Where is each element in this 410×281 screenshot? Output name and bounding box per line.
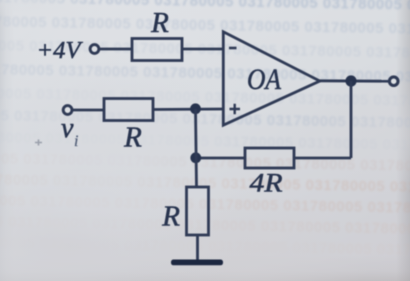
paper speck mark — [35, 140, 42, 146]
svg-text:R: R — [123, 122, 142, 154]
svg-text:+4V: +4V — [37, 37, 84, 64]
wire feedback horizontal right — [294, 157, 351, 160]
resistor R3 (vertical) — [187, 187, 209, 235]
node A junction — [190, 103, 201, 114]
ground — [171, 260, 223, 266]
op-amp U1 — [223, 32, 319, 125]
resistor R4 (4R) — [245, 148, 294, 168]
svg-text:v: v — [61, 113, 74, 144]
wire op-amp output — [319, 79, 390, 82]
wire terminal vi to R2 — [72, 109, 104, 112]
wire terminal to R1 — [99, 48, 132, 51]
resistor R2 — [104, 99, 153, 121]
wire R3 to ground — [196, 235, 199, 260]
terminal +4V input — [90, 45, 99, 54]
wire feedback vertical — [350, 81, 353, 158]
op-amp plus sign — [230, 104, 241, 114]
node B junction — [190, 152, 201, 163]
svg-text:4R: 4R — [250, 169, 283, 198]
svg-text:OA: OA — [247, 64, 282, 96]
wire R1 to op-amp inverting input — [182, 48, 224, 51]
op-amp minus sign — [229, 47, 237, 50]
terminal vi input — [63, 106, 72, 115]
wire R2 to node A — [153, 108, 224, 111]
svg-text:R: R — [150, 7, 169, 39]
wire node A down to R3 — [196, 109, 197, 187]
svg-text:R: R — [161, 201, 180, 233]
output junction node — [345, 75, 356, 86]
output terminal — [389, 77, 398, 86]
svg-text:i: i — [74, 133, 78, 150]
wire 4R to node A column — [196, 157, 246, 160]
resistor R1 — [132, 39, 182, 61]
